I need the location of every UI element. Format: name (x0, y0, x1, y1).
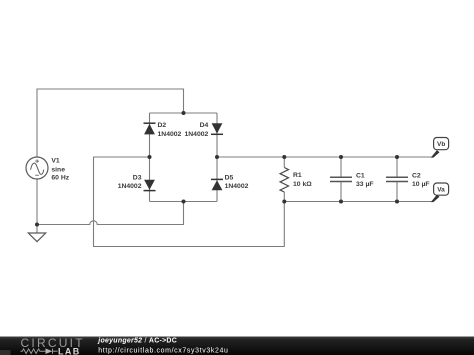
svg-text:C2: C2 (412, 173, 421, 180)
svg-text:http://circuitlab.com/cx7sy3tv: http://circuitlab.com/cx7sy3tv3k24u (98, 348, 228, 355)
svg-text:LAB: LAB (58, 346, 81, 355)
svg-text:1N4002: 1N4002 (118, 183, 142, 190)
svg-text:joeyunger52 / AC->DC: joeyunger52 / AC->DC (97, 337, 177, 344)
svg-text:1N4002: 1N4002 (158, 131, 182, 138)
svg-text:R1: R1 (293, 172, 302, 179)
svg-text:10 kΩ: 10 kΩ (293, 181, 312, 188)
svg-text:D3: D3 (133, 175, 142, 182)
svg-text:D4: D4 (200, 122, 209, 129)
svg-text:10 µF: 10 µF (412, 181, 430, 188)
svg-text:Va: Va (437, 187, 445, 194)
svg-text:1N4002: 1N4002 (184, 131, 208, 138)
svg-text:D5: D5 (225, 175, 234, 182)
svg-text:33 µF: 33 µF (356, 181, 374, 188)
svg-text:sine: sine (51, 166, 65, 173)
svg-text:V1: V1 (51, 157, 60, 164)
svg-text:C1: C1 (356, 173, 365, 180)
svg-text:1N4002: 1N4002 (225, 183, 249, 190)
svg-text:D2: D2 (158, 122, 167, 129)
svg-text:Vb: Vb (437, 141, 445, 148)
svg-text:60 Hz: 60 Hz (51, 175, 69, 182)
